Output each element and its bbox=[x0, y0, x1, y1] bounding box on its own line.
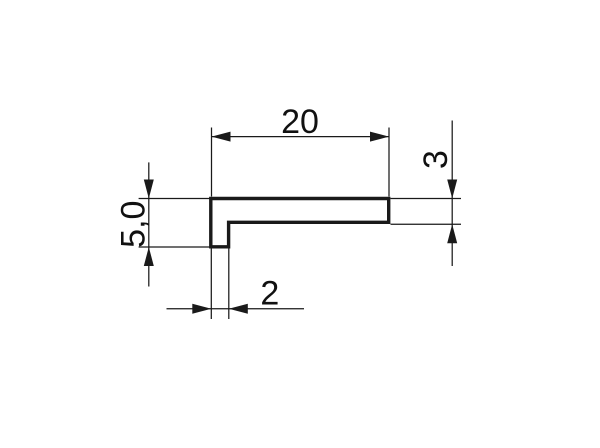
svg-text:2: 2 bbox=[260, 275, 279, 313]
svg-text:3: 3 bbox=[417, 150, 455, 169]
svg-text:20: 20 bbox=[281, 103, 319, 141]
svg-text:5,0: 5,0 bbox=[115, 201, 153, 248]
